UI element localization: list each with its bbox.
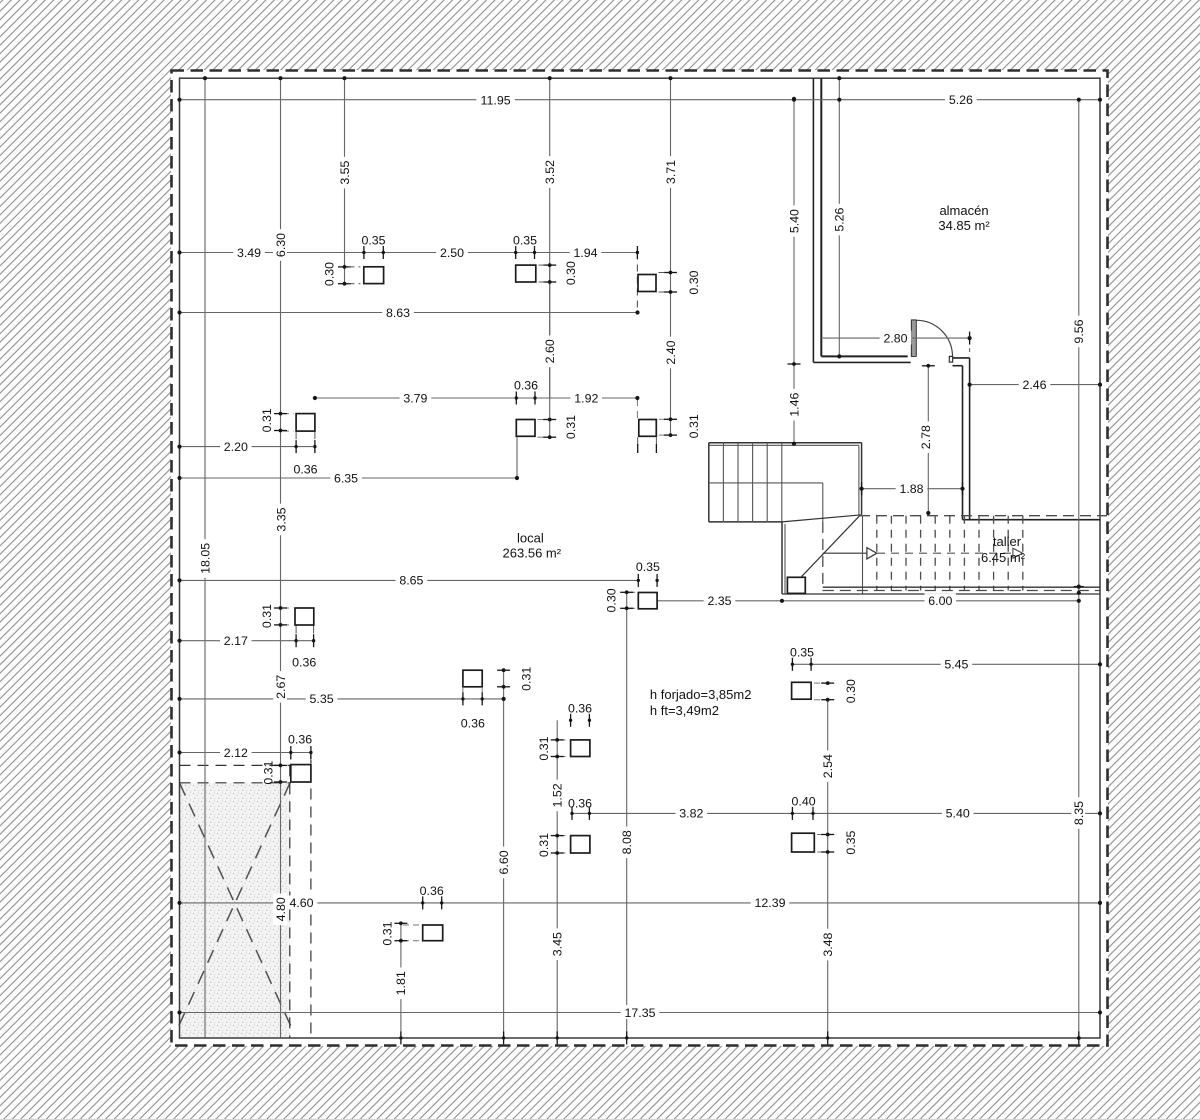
svg-text:0.35: 0.35 [790, 646, 814, 660]
svg-text:0.35: 0.35 [636, 560, 660, 574]
svg-text:2.12: 2.12 [224, 746, 248, 760]
dim line 2.35/6.00 [657, 600, 1079, 602]
stair arrow line [823, 552, 867, 554]
svg-text:3.82: 3.82 [679, 807, 703, 821]
grid vertical 8.08 [626, 592, 628, 1038]
svg-text:0.30: 0.30 [605, 588, 619, 612]
svg-text:2.60: 2.60 [543, 339, 557, 363]
dim vertical 2.78 [927, 366, 929, 513]
svg-text:4.60: 4.60 [289, 896, 313, 910]
svg-text:0.35: 0.35 [513, 233, 537, 247]
column L [571, 836, 590, 853]
svg-text:2.54: 2.54 [821, 754, 835, 778]
stair upper flight outline [709, 442, 862, 444]
svg-text:0.31: 0.31 [687, 414, 701, 438]
dashed stubs row2 columns [538, 419, 548, 421]
dashed plot boundary [172, 71, 1108, 1046]
svg-text:0.30: 0.30 [322, 262, 336, 286]
dim vertical 9.56/8.35 [1078, 100, 1080, 1038]
svg-text:2.67: 2.67 [274, 675, 288, 699]
grid vertical 18.05 [204, 78, 206, 1037]
svg-text:8.65: 8.65 [399, 574, 423, 588]
dim line 8.63 [180, 312, 638, 314]
dim line 3.79/0.36/1.92 [315, 397, 638, 399]
svg-text:17.35: 17.35 [624, 1006, 655, 1020]
column G [295, 608, 314, 625]
door jamb [911, 320, 916, 357]
svg-text:6.00: 6.00 [928, 594, 952, 608]
svg-text:5.26: 5.26 [949, 93, 973, 107]
room labels [939, 203, 988, 218]
svg-text:0.36: 0.36 [420, 884, 444, 898]
svg-text:5.26: 5.26 [833, 207, 847, 231]
dim line 3.49/0.35/2.50/0.35/1.94 [180, 252, 638, 254]
dim line 2.20 [180, 446, 315, 448]
dim line 2.17 [180, 640, 314, 642]
stair cut line [782, 515, 862, 522]
svg-text:0.35: 0.35 [361, 233, 385, 247]
dim line 1.88 [862, 488, 963, 490]
almacen left wall [812, 78, 814, 362]
dashed lower flight steps [876, 516, 878, 591]
svg-text:almacén: almacén [939, 203, 988, 218]
svg-text:263.56 m²: 263.56 m² [503, 546, 562, 561]
dim vertical 5.40/1.46 [793, 99, 795, 444]
dashed stubs col I [814, 682, 825, 684]
svg-text:1.92: 1.92 [574, 391, 598, 405]
stair right wall [858, 445, 860, 514]
dashed lower flight outline [859, 515, 1107, 517]
svg-text:6.45 m²: 6.45 m² [981, 550, 1026, 565]
stair band bottom solid [823, 586, 1100, 588]
svg-text:0.31: 0.31 [537, 736, 551, 760]
stair mid landing line [709, 482, 823, 484]
column E [516, 420, 535, 437]
dim line 17.35 [180, 1012, 1101, 1014]
stair diagonal rail [802, 516, 860, 577]
svg-text:3.35: 3.35 [275, 507, 289, 531]
dashed risers col D [295, 431, 297, 452]
door swing arc [916, 320, 952, 356]
grid vertical 3.71/2.40 [670, 78, 672, 435]
dim vertical 1.81 [400, 923, 402, 1037]
lower flight dashed arrow [877, 552, 1012, 554]
lower flight arrow head [1013, 548, 1023, 558]
svg-text:11.95: 11.95 [481, 93, 511, 107]
svg-text:5.40: 5.40 [787, 209, 801, 233]
svg-text:h ft=3,49m2: h ft=3,49m2 [650, 703, 719, 718]
dashed drop 1.92 to col F [636, 398, 638, 418]
grid vertical 3.55 [344, 78, 346, 284]
column H [638, 593, 657, 609]
grid vertical 6.30/3.35/2.67/4.80 [280, 78, 282, 1037]
column B [516, 265, 536, 282]
column N [291, 765, 311, 782]
svg-text:6.35: 6.35 [334, 471, 358, 485]
wall right of door [953, 357, 970, 359]
column J [463, 670, 482, 687]
dim line 5.35 [180, 698, 504, 700]
svg-text:0.31: 0.31 [537, 833, 551, 857]
grid vertical 3.52/2.60 [549, 78, 551, 437]
connector col B [549, 265, 551, 282]
dashed stubs col K [560, 739, 569, 741]
stair steps upper [722, 443, 724, 522]
svg-text:1.94: 1.94 [573, 246, 597, 260]
svg-text:34.85 m²: 34.85 m² [938, 218, 990, 233]
svg-text:local: local [517, 531, 544, 546]
grid vertical 1.52/3.45 [556, 720, 558, 1038]
dim line 2.46 [970, 384, 1100, 386]
svg-text:4.80: 4.80 [274, 897, 288, 921]
svg-text:5.35: 5.35 [310, 692, 334, 706]
svg-text:0.30: 0.30 [687, 270, 701, 294]
svg-text:0.30: 0.30 [564, 261, 578, 285]
svg-text:0.30: 0.30 [844, 679, 858, 703]
grid vertical 6.60 [503, 670, 505, 1038]
stair lower-left wall [781, 522, 783, 594]
svg-text:1.81: 1.81 [394, 971, 408, 995]
svg-text:3.49: 3.49 [237, 246, 261, 260]
svg-text:taller: taller [993, 534, 1022, 549]
svg-text:0.36: 0.36 [293, 463, 317, 477]
dashed drop to column C [636, 253, 638, 313]
svg-text:3.52: 3.52 [543, 160, 557, 184]
grid vertical 2.54/3.48 [827, 700, 829, 1038]
svg-text:5.40: 5.40 [946, 807, 970, 821]
dashed stubs col G [283, 607, 293, 609]
svg-text:2.78: 2.78 [919, 425, 933, 449]
svg-text:2.20: 2.20 [224, 440, 248, 454]
connector 2.60 [549, 282, 551, 398]
dim line 11.95 [180, 99, 1101, 101]
dashed stubs col H [629, 591, 636, 593]
dashed zone borders [180, 764, 291, 766]
svg-text:0.31: 0.31 [520, 667, 534, 691]
svg-text:0.31: 0.31 [564, 415, 578, 439]
dim line 2.80 [821, 337, 969, 339]
svg-text:8.35: 8.35 [1072, 801, 1086, 825]
svg-text:h forjado=3,85m2: h forjado=3,85m2 [650, 687, 752, 702]
svg-text:0.31: 0.31 [260, 604, 274, 628]
svg-text:12.39: 12.39 [754, 896, 785, 910]
column D [296, 414, 315, 432]
column C [638, 275, 656, 292]
height annotations [650, 687, 752, 702]
svg-text:3.79: 3.79 [403, 391, 427, 405]
rotated labels [273, 229, 288, 261]
dashed stubs col M [817, 834, 825, 836]
svg-text:0.36: 0.36 [568, 797, 592, 811]
svg-text:6.30: 6.30 [274, 233, 288, 257]
dim line 2.12 [180, 752, 311, 754]
svg-text:3.48: 3.48 [821, 932, 835, 956]
svg-text:2.80: 2.80 [883, 331, 907, 345]
dim line 6.35 [180, 477, 518, 479]
svg-text:18.05: 18.05 [198, 543, 212, 574]
dashed stubs col L [560, 835, 569, 837]
svg-text:8.08: 8.08 [620, 830, 634, 854]
dashed stubs col N risers [290, 754, 292, 763]
column M [792, 833, 815, 852]
svg-text:0.31: 0.31 [261, 760, 275, 784]
dim line 8.65 [180, 579, 639, 581]
svg-text:1.88: 1.88 [899, 482, 923, 496]
dashed stubs col O [403, 924, 420, 926]
svg-text:2.17: 2.17 [224, 634, 248, 648]
svg-text:2.46: 2.46 [1022, 378, 1046, 392]
column A [364, 267, 384, 284]
svg-text:5.45: 5.45 [944, 658, 968, 672]
dim line 5.45 [792, 663, 1100, 665]
door stop notch [949, 356, 952, 362]
svg-text:1.52: 1.52 [551, 783, 565, 807]
solid lower steps [862, 516, 864, 594]
almacen bottom wall [821, 355, 907, 357]
svg-text:6.60: 6.60 [497, 850, 511, 874]
taller top wall [963, 519, 1101, 521]
stippled patio zone [180, 783, 290, 1038]
svg-text:3.71: 3.71 [664, 160, 678, 184]
column O [423, 925, 443, 941]
svg-text:0.35: 0.35 [844, 830, 858, 854]
svg-text:0.36: 0.36 [568, 702, 592, 716]
dim line 4.60/12.39 [180, 902, 1101, 904]
plan sheet [171, 70, 1108, 1046]
svg-text:0.31: 0.31 [260, 408, 274, 432]
dim vertical 5.26 [838, 78, 840, 356]
svg-text:2.35: 2.35 [707, 594, 731, 608]
dashed X brace [180, 783, 295, 1033]
column K [571, 740, 590, 757]
column I [792, 682, 812, 699]
svg-text:0.36: 0.36 [514, 379, 538, 393]
svg-text:0.31: 0.31 [381, 921, 395, 945]
svg-text:3.45: 3.45 [551, 932, 565, 956]
column P (stair) [787, 577, 805, 593]
svg-text:3.55: 3.55 [338, 160, 352, 184]
svg-text:0.36: 0.36 [461, 716, 485, 730]
svg-text:8.63: 8.63 [386, 306, 410, 320]
svg-text:1.46: 1.46 [787, 393, 801, 417]
dashed risers col G [295, 625, 297, 645]
dim line 3.82/5.40 [572, 812, 1100, 814]
svg-text:2.40: 2.40 [664, 340, 678, 364]
stair arrow head [867, 548, 877, 559]
dashed stubs col J [462, 688, 464, 697]
svg-text:0.36: 0.36 [288, 732, 312, 746]
dimension labels [476, 93, 515, 108]
svg-text:2.50: 2.50 [440, 246, 464, 260]
svg-text:9.56: 9.56 [1072, 319, 1086, 343]
svg-text:0.36: 0.36 [292, 655, 316, 669]
svg-text:0.40: 0.40 [792, 794, 816, 808]
column F [639, 420, 657, 437]
site boundary rectangle [180, 78, 1101, 1038]
